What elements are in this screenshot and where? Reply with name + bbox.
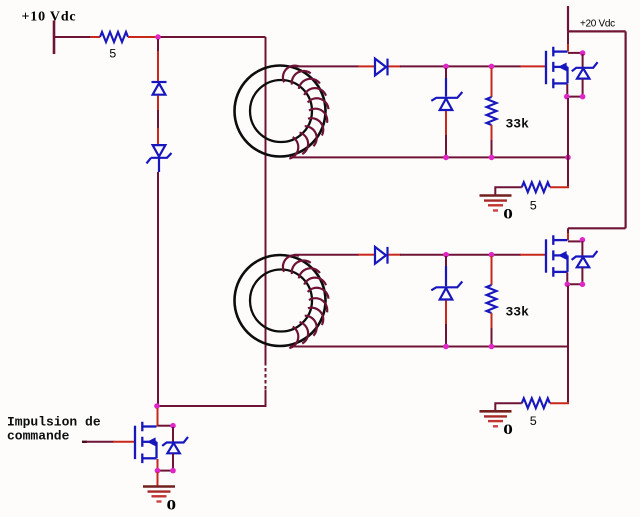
wire gate input (82, 441, 87, 443)
wire (158, 390, 266, 406)
wire right rail (624, 31, 626, 228)
node junction (Q3 source) (155, 468, 161, 474)
wire T2 secondary top (294, 254, 359, 256)
resistor R1 (100, 32, 128, 42)
svg-text:+20 Vdc: +20 Vdc (580, 19, 615, 30)
node junction (zener top) (580, 237, 586, 243)
wire T1 secondary bottom (290, 156, 566, 158)
ground label 0 (503, 421, 513, 438)
wire +20 Vdc feed (567, 6, 569, 31)
node junction (Z1 bottom) (443, 155, 449, 161)
svg-text:+10 Vdc: +10 Vdc (22, 10, 77, 25)
body zener DZ1 (582, 54, 584, 68)
transformer T2 core (outer circle) (235, 255, 326, 346)
wire Q1 drain to body zener (568, 52, 583, 54)
ground (top section) (480, 194, 512, 197)
wire Q1 drain (567, 31, 569, 45)
wire (495, 187, 522, 194)
wire (54, 36, 91, 38)
ground (driver) (143, 485, 175, 488)
wire (389, 65, 402, 67)
transformer T1 core (outer circle) (235, 66, 326, 157)
wire Q3 source tie (157, 459, 159, 470)
node junction (Q2 source) (565, 282, 571, 288)
node junction (zener bottom) (580, 94, 586, 100)
zener diode Z1 (shunt) (445, 68, 447, 78)
wire (top rail to primary corner) (160, 36, 266, 38)
node junction (R2 top) (489, 64, 495, 70)
zener diode D2 (cathode down, Z-bar) (147, 145, 172, 163)
diode D4 (series, cathode right) (375, 247, 388, 264)
node junction (R4 bottom) (489, 344, 495, 350)
ground (lower section) (480, 410, 512, 413)
svg-text:0: 0 (503, 421, 513, 438)
MOSFET Q2 (546, 235, 568, 276)
node junction (R1 / diode string / primary) (155, 34, 161, 40)
svg-text:5: 5 (109, 48, 117, 62)
svg-text:5: 5 (530, 415, 538, 429)
MOSFET Q1 (546, 47, 568, 88)
wire (550, 402, 568, 403)
node junction (primary return / Q3 drain) (154, 403, 160, 409)
body zener DZ3 (172, 427, 174, 442)
node junction (zener top) (170, 423, 176, 429)
wire (157, 39, 159, 52)
wire Q1 source down (567, 98, 569, 186)
wire Q2 drain (567, 228, 569, 234)
wire (128, 36, 157, 38)
resistor R4 33k (491, 256, 493, 285)
wire T1 secondary top (294, 65, 359, 67)
wire lower drain feed (568, 227, 626, 229)
resistor R3 (522, 182, 550, 192)
transformer T1 core (inner circle) (250, 80, 312, 142)
wire Q2 source down (567, 286, 569, 403)
transformer T1 secondary winding (283, 66, 329, 159)
transformer T2 secondary winding (283, 255, 329, 348)
transformer T2 core (inner circle) (250, 270, 312, 332)
diode D3 (series, cathode right) (375, 59, 388, 76)
node junction (zener top) (580, 50, 586, 56)
node junction (source rail) (565, 155, 571, 161)
svg-text:33k: 33k (506, 305, 530, 320)
svg-text:0: 0 (503, 205, 513, 222)
ground label 0 (503, 205, 513, 222)
wire (long left column) (157, 172, 159, 405)
node junction (zener bottom) (580, 282, 586, 288)
wire (157, 96, 159, 112)
node junction (R2 bottom) (489, 155, 495, 161)
wire (495, 403, 522, 410)
wire (389, 254, 402, 256)
node junction (zener bottom) (170, 468, 176, 474)
svg-text:33k: 33k (506, 117, 530, 132)
body zener DZ2 (581, 241, 583, 256)
svg-text:5: 5 (530, 200, 538, 214)
svg-text:0: 0 (167, 496, 177, 512)
wire Q2 drain to body zener (568, 240, 582, 242)
resistor R5 (522, 398, 550, 408)
MOSFET Q3 (135, 422, 157, 463)
wire Q3 drain to body zener (158, 425, 174, 427)
terminal +10 Vdc (53, 21, 56, 55)
wire top rail (568, 30, 626, 32)
node junction (R4 top) (489, 252, 495, 258)
wire Q2 source tie (567, 272, 582, 284)
wire T2 secondary bottom (290, 346, 568, 348)
wire Q1 source tie (567, 84, 582, 97)
resistor R2 33k (491, 68, 493, 97)
wire primary (through both toroids) (265, 37, 267, 362)
ground label 0 (167, 496, 177, 513)
wire Q3 drain (157, 408, 159, 427)
zener diode Z2 (shunt) (445, 256, 447, 266)
wire dashed continuation (265, 362, 267, 390)
wire to ground (157, 472, 159, 486)
diode D1 (cathode up) (152, 82, 167, 95)
node junction (Z2 bottom) (443, 344, 449, 350)
node junction (zener Z1 top) (443, 64, 449, 70)
svg-text:Impulsion de: Impulsion de (7, 415, 101, 430)
node junction (zener Z2 top) (443, 252, 449, 258)
wire (550, 186, 568, 187)
svg-text:commande: commande (7, 429, 70, 444)
node junction (Q1 source) (564, 94, 570, 100)
